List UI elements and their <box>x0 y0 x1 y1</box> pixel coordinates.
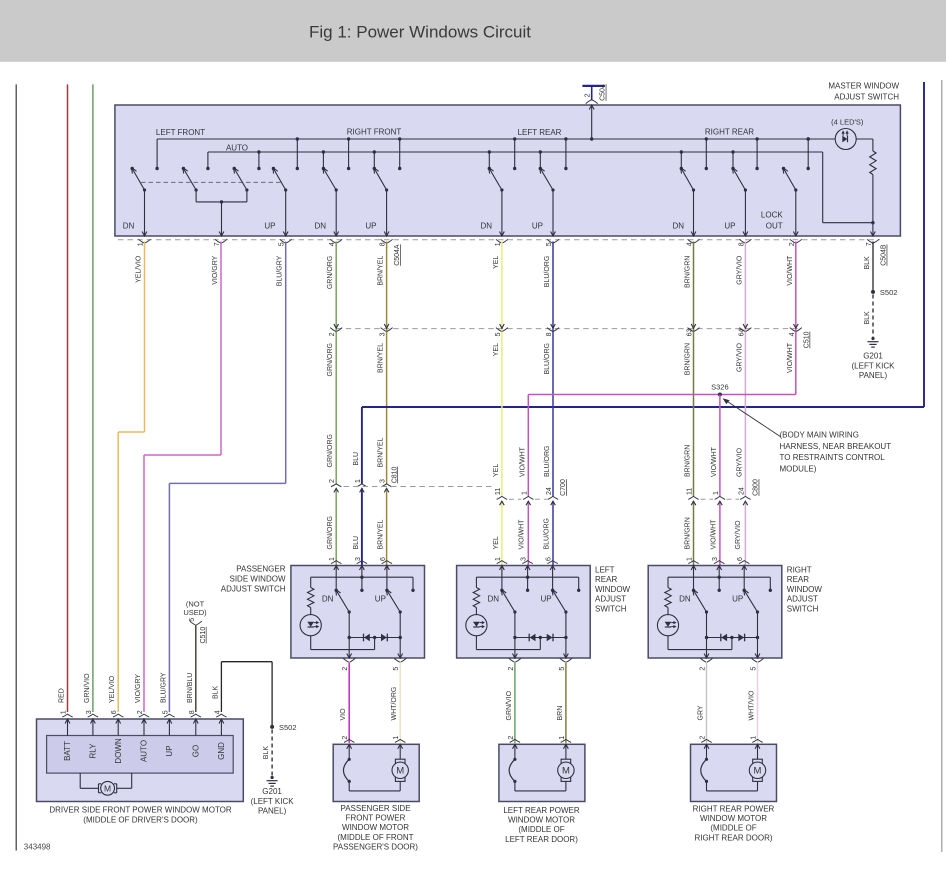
svg-text:BRN/GRN: BRN/GRN <box>685 445 692 477</box>
svg-text:6: 6 <box>737 557 744 561</box>
left rear DN blade <box>501 589 516 613</box>
left rear internal top rail <box>476 577 580 592</box>
driver auto blade B <box>234 168 249 192</box>
svg-text:BRN/YEL: BRN/YEL <box>378 343 385 373</box>
svg-text:3: 3 <box>521 557 528 561</box>
right rear UP blade <box>744 589 760 613</box>
svg-text:2: 2 <box>585 93 592 97</box>
svg-text:2: 2 <box>789 242 796 246</box>
svg-text:1: 1 <box>559 736 566 740</box>
svg-text:BLU/ORG: BLU/ORG <box>544 445 551 477</box>
switch output wire x=336.2 <box>334 190 339 236</box>
caption LEFT REAR POWER WINDOW MOTOR <box>503 806 580 844</box>
connector row C810 cups <box>331 484 341 493</box>
driver auto blade A <box>183 168 198 192</box>
svg-text:UP: UP <box>365 222 376 231</box>
wire BRN left rear pin5 to motor <box>565 663 567 743</box>
passenger pin2 output <box>343 638 355 663</box>
right rear pin3 entry <box>714 561 724 592</box>
svg-text:ADJUST: ADJUST <box>787 595 818 604</box>
svg-text:DN: DN <box>679 594 691 603</box>
caption DRIVER SIDE FRONT POWER WINDOW MOTOR <box>49 806 232 825</box>
svg-text:BLU: BLU <box>353 452 360 466</box>
wire VIO/WHT master pin2 with S326 splice run <box>528 242 796 395</box>
driver pin7 output wire <box>219 202 224 236</box>
svg-text:ADJUST: ADJUST <box>595 595 626 604</box>
left rear pin3 entry <box>522 561 532 592</box>
svg-text:S502: S502 <box>279 723 297 732</box>
right rear pin1 entry <box>688 561 698 592</box>
svg-text:BLU: BLU <box>353 536 360 550</box>
passenger side front circuit breaker arc <box>343 759 349 781</box>
wire VIO/WHT left rear from S326 run <box>527 395 529 566</box>
svg-text:VIO/WHT: VIO/WHT <box>711 446 718 477</box>
switch output wire x=795.8 <box>793 190 798 236</box>
left rear motor pin2 entry <box>510 739 520 761</box>
svg-text:GRN/ORG: GRN/ORG <box>327 434 334 467</box>
left frame line <box>15 84 17 850</box>
svg-text:5: 5 <box>559 667 566 671</box>
passenger side front motor M symbol <box>392 759 408 781</box>
right rear window adjust switch box <box>648 566 782 659</box>
svg-text:63: 63 <box>687 329 694 337</box>
svg-text:MASTER WINDOW: MASTER WINDOW <box>828 82 899 91</box>
left rear LED <box>466 615 487 636</box>
svg-text:11: 11 <box>687 488 694 495</box>
svg-text:RED: RED <box>59 688 66 703</box>
passenger internal top rail <box>311 577 415 592</box>
breaker bottom junction <box>513 780 566 791</box>
svg-text:G201: G201 <box>262 787 282 796</box>
wire VIO passenger pin2 to motor <box>348 663 350 743</box>
passenger side front power window motor box <box>333 744 419 801</box>
right rear LED to bottom rail <box>668 636 732 650</box>
passenger diode rail <box>348 612 402 639</box>
wire BRN/GRN below C800 <box>693 501 695 565</box>
C800 pin 1 cups x=719.9 <box>715 496 725 505</box>
wire BLK driver pin4 up-over to S502 <box>221 662 272 725</box>
C510 pin 64 cup x=745.4 <box>739 324 751 331</box>
dashed link C810-C700 row <box>344 486 495 488</box>
svg-text:1: 1 <box>329 557 336 561</box>
wire GRN/ORG master pin4 to C810 <box>335 242 337 484</box>
rail 2 (AUTO rail) <box>208 151 823 153</box>
left rear pin2 output <box>509 638 521 663</box>
splice S502 (right) <box>871 290 875 294</box>
svg-text:1: 1 <box>61 710 68 714</box>
svg-text:3: 3 <box>712 557 719 561</box>
svg-text:VIO/WHT: VIO/WHT <box>787 342 794 373</box>
wire BLU/GRY from master pin5 <box>169 242 285 713</box>
svg-text:3: 3 <box>355 557 362 561</box>
svg-text:BLU/GRY: BLU/GRY <box>160 672 167 703</box>
svg-text:SWITCH: SWITCH <box>787 604 819 613</box>
switch output wire x=285.7 <box>283 190 288 236</box>
switch output wire x=693.5 <box>691 190 696 236</box>
wire YEL/VIO from master pin1 <box>118 242 144 713</box>
svg-text:(BODY MAIN WIRING: (BODY MAIN WIRING <box>780 431 859 440</box>
svg-text:8: 8 <box>738 242 745 246</box>
label RIGHT REAR WINDOW ADJUST SWITCH <box>787 566 823 614</box>
svg-text:SIDE WINDOW: SIDE WINDOW <box>230 575 286 584</box>
label G201 (left) <box>251 787 295 815</box>
driver motor pin 6 DOWN <box>113 714 123 735</box>
svg-text:VIO/GRY: VIO/GRY <box>212 255 219 284</box>
passenger side front motor pin1 entry <box>395 739 405 759</box>
svg-text:6: 6 <box>111 710 118 714</box>
wire YEL below C700 <box>501 501 503 565</box>
svg-text:C700: C700 <box>560 479 567 496</box>
wire BRN/YEL master pin8 to C810 <box>386 242 388 484</box>
svg-text:RIGHT REAR DOOR): RIGHT REAR DOOR) <box>694 833 772 842</box>
C510 pin 3 cup x=386.6 <box>381 324 393 331</box>
passenger pin5 output <box>394 638 406 663</box>
wire BLU/ORG below C700 <box>552 501 554 565</box>
svg-text:BLK: BLK <box>212 685 219 699</box>
svg-text:6: 6 <box>546 557 553 561</box>
wire GRN/VIO relay feed <box>92 84 94 712</box>
svg-text:4: 4 <box>687 242 694 246</box>
svg-text:M: M <box>104 783 111 793</box>
svg-text:WHT/ORG: WHT/ORG <box>391 687 398 721</box>
svg-text:WINDOW MOTOR: WINDOW MOTOR <box>700 814 767 823</box>
svg-text:M: M <box>754 766 762 777</box>
switch output wire x=553.0 <box>551 190 556 236</box>
svg-text:1: 1 <box>751 736 758 740</box>
svg-text:USED): USED) <box>183 608 207 617</box>
svg-text:YEL: YEL <box>493 464 500 477</box>
svg-text:VIO/GRY: VIO/GRY <box>135 674 142 703</box>
right front UP blade <box>374 168 389 192</box>
label PASSENGER SIDE WINDOW ADJUST SWITCH <box>221 565 286 594</box>
open contact x=183.4 <box>182 167 185 170</box>
C504A/B pin 5 cup x=285.7 <box>280 239 292 243</box>
splice S502 (left) <box>270 725 274 729</box>
C510 pin 63 cup x=693.5 <box>688 324 700 331</box>
svg-text:3: 3 <box>86 710 93 714</box>
dashed segments C700 row <box>509 498 522 500</box>
svg-text:(MIDDLE OF: (MIDDLE OF <box>710 824 756 833</box>
open contact x=132.2 <box>131 167 134 170</box>
svg-text:RLY: RLY <box>89 743 98 759</box>
svg-text:2: 2 <box>137 710 144 714</box>
passenger diode right <box>381 634 387 642</box>
svg-text:5: 5 <box>393 667 400 671</box>
passenger resistor <box>308 577 314 614</box>
svg-text:2: 2 <box>700 667 707 671</box>
svg-text:PASSENGER SIDE: PASSENGER SIDE <box>340 804 410 813</box>
svg-text:WINDOW MOTOR: WINDOW MOTOR <box>342 823 409 832</box>
svg-text:2: 2 <box>508 667 515 671</box>
svg-text:BRN/GRN: BRN/GRN <box>685 256 692 288</box>
svg-text:(MIDDLE OF FRONT: (MIDDLE OF FRONT <box>338 833 414 842</box>
wire GRN/VIO left rear pin2 to motor <box>514 663 516 743</box>
wire GRN/ORG C810 to passenger switch <box>335 488 337 565</box>
svg-text:SWITCH: SWITCH <box>595 604 627 613</box>
wire BLU loop (navy): right riser, cross run, drop to passenger pin3 <box>362 82 924 566</box>
left rear diode rail <box>513 612 567 639</box>
C800 pin 24 cups x=745.4 <box>740 496 750 505</box>
svg-text:BRN/YEL: BRN/YEL <box>378 519 385 549</box>
svg-text:C504B: C504B <box>881 244 888 266</box>
svg-text:2: 2 <box>700 736 707 740</box>
C504A/B pin 4 cup x=693.5 <box>688 239 700 243</box>
svg-text:BRN/BLU: BRN/BLU <box>187 673 194 703</box>
svg-text:Fig 1: Power Windows Circuit: Fig 1: Power Windows Circuit <box>309 23 531 42</box>
header bar <box>0 0 946 62</box>
svg-text:1: 1 <box>713 491 720 495</box>
C504A/B pin 4 cup x=336.2 <box>330 239 342 243</box>
svg-text:24: 24 <box>738 487 745 495</box>
svg-text:RIGHT REAR POWER: RIGHT REAR POWER <box>693 804 775 813</box>
svg-text:GRY/VIO: GRY/VIO <box>736 447 743 477</box>
right front DN blade <box>323 168 338 192</box>
svg-text:UP: UP <box>541 594 552 603</box>
left rear pin5 output <box>560 638 572 663</box>
rail 2 right elbow to resistor bottom <box>823 152 873 223</box>
svg-text:DRIVER SIDE FRONT POWER WINDOW: DRIVER SIDE FRONT POWER WINDOW MOTOR <box>49 806 232 815</box>
driver auto U-link <box>196 190 247 204</box>
svg-text:C510: C510 <box>804 331 811 348</box>
svg-text:GRY: GRY <box>698 705 705 720</box>
svg-text:UP: UP <box>732 594 743 603</box>
svg-text:DOWN: DOWN <box>114 738 123 764</box>
rail2 stub contact x=374.3 <box>373 150 376 170</box>
right rear DN blade <box>681 168 695 192</box>
rail2 stub contact x=540.3 <box>539 150 542 170</box>
left rear window adjust switch box <box>457 566 591 659</box>
right rear motor M symbol <box>749 759 765 781</box>
passenger pin3 entry <box>357 561 367 592</box>
svg-text:BLK: BLK <box>864 311 871 325</box>
svg-text:C510: C510 <box>200 627 207 644</box>
svg-text:TO RESTRAINTS CONTROL: TO RESTRAINTS CONTROL <box>780 453 886 462</box>
svg-text:2: 2 <box>508 736 515 740</box>
driver side front power window motor box <box>37 719 244 802</box>
svg-text:1: 1 <box>495 242 502 246</box>
svg-text:7: 7 <box>214 242 221 246</box>
svg-text:BRN/GRN: BRN/GRN <box>685 517 692 549</box>
LED (4 LED'S) in master switch <box>807 129 857 150</box>
resistor (master switch) <box>856 139 876 224</box>
svg-text:(MIDDLE OF DRIVER'S DOOR): (MIDDLE OF DRIVER'S DOOR) <box>83 815 198 824</box>
left rear power window motor box <box>499 744 585 801</box>
wire GRY right rear pin2 to motor <box>706 663 708 743</box>
svg-text:GRN/ORG: GRN/ORG <box>327 343 334 376</box>
right frame line <box>941 80 943 852</box>
label G201 (right) <box>852 352 896 381</box>
right rear diode left <box>721 634 727 642</box>
svg-text:PASSENGER: PASSENGER <box>236 565 285 574</box>
C510 pin 5 cup x=501.9 <box>496 324 508 331</box>
switch output wire x=501.9 <box>500 190 505 236</box>
passenger LED to bottom rail <box>311 636 375 650</box>
svg-text:REAR: REAR <box>595 575 617 584</box>
wire WHT/VIO right rear pin5 to motor <box>757 663 759 743</box>
svg-text:WHT/VIO: WHT/VIO <box>749 690 756 720</box>
svg-text:FRONT POWER: FRONT POWER <box>346 814 406 823</box>
C800 pin 11 cups x=693.5 <box>688 496 698 505</box>
breaker bottom junction <box>705 780 758 791</box>
driver motor pin 2 AUTO <box>139 714 149 735</box>
driver motor pin 1 BATT <box>62 714 72 735</box>
passenger UP blade <box>386 589 402 613</box>
svg-text:11: 11 <box>495 488 502 495</box>
wire BLU/ORG master LR pin5 <box>552 242 554 497</box>
svg-text:RIGHT FRONT: RIGHT FRONT <box>347 128 402 137</box>
svg-text:5: 5 <box>495 332 502 336</box>
svg-text:RIGHT: RIGHT <box>787 566 812 575</box>
passenger DN blade <box>336 589 351 613</box>
svg-text:PASSENGER'S DOOR): PASSENGER'S DOOR) <box>333 843 418 852</box>
wire BLK dashed S502 to G201 (left) <box>271 730 273 777</box>
right rear pin5 output <box>752 638 764 663</box>
label MASTER WINDOW ADJUST SWITCH <box>828 82 899 102</box>
splice S326 <box>718 393 722 397</box>
C510 pin 4 cup x=795.8 <box>790 324 802 331</box>
right rear power window motor box <box>691 744 777 801</box>
svg-text:LEFT REAR DOOR): LEFT REAR DOOR) <box>505 835 578 844</box>
left rear diode left <box>529 634 535 642</box>
rail 1 (window select top rail) <box>157 138 835 140</box>
svg-text:LEFT REAR: LEFT REAR <box>518 128 562 137</box>
driver UP blade <box>273 168 288 192</box>
pin 7 BLK output wire <box>871 223 876 236</box>
wire BLK dashed S502 to G201 <box>872 295 874 338</box>
svg-text:(MIDDLE OF: (MIDDLE OF <box>518 825 564 834</box>
driver motor pin 5 UP <box>164 714 174 735</box>
svg-text:BRN/YEL: BRN/YEL <box>378 256 385 286</box>
left rear LED to bottom rail <box>476 636 540 650</box>
driver motor M symbol <box>80 773 132 795</box>
svg-text:6: 6 <box>380 557 387 561</box>
svg-text:RIGHT REAR: RIGHT REAR <box>705 128 754 137</box>
svg-text:AUTO: AUTO <box>226 143 248 152</box>
svg-text:S326: S326 <box>711 383 729 392</box>
connector C504 stub (navy) with end bar <box>582 86 605 104</box>
switch output wire x=745.4 <box>743 190 748 236</box>
svg-text:3: 3 <box>380 479 387 483</box>
wire RED battery feed <box>67 84 69 712</box>
svg-text:C800: C800 <box>753 479 760 496</box>
svg-text:2: 2 <box>342 667 349 671</box>
svg-text:OUT: OUT <box>766 222 783 231</box>
left rear UP blade <box>540 168 555 192</box>
svg-text:BLU/ORG: BLU/ORG <box>544 343 551 375</box>
driver motor pin 4 GND <box>216 714 226 735</box>
C504A/B pin 7 cup x=221.0 <box>215 239 227 243</box>
svg-text:WINDOW: WINDOW <box>787 585 823 594</box>
right rear motor pin1 entry <box>752 739 762 759</box>
svg-text:7: 7 <box>866 242 873 246</box>
svg-text:BLU/ORG: BLU/ORG <box>544 256 551 288</box>
svg-text:GRY/VIO: GRY/VIO <box>736 342 743 372</box>
svg-text:WINDOW MOTOR: WINDOW MOTOR <box>508 816 575 825</box>
svg-text:8: 8 <box>380 242 387 246</box>
svg-text:PANEL): PANEL) <box>859 371 888 380</box>
rail1 stub contact x=565.9 <box>564 137 567 170</box>
svg-text:BRN: BRN <box>557 706 564 721</box>
svg-text:YEL: YEL <box>493 343 500 356</box>
svg-text:1: 1 <box>687 557 694 561</box>
wire VIO/GRY from master pin7 <box>144 242 221 713</box>
rail1 stub contact x=348.6 <box>347 137 350 170</box>
svg-text:DN: DN <box>123 222 135 231</box>
svg-text:S502: S502 <box>880 288 898 297</box>
annotation text BODY MAIN WIRING HARNESS <box>780 431 892 474</box>
rail1 stub contact x=757.1 <box>755 137 758 170</box>
svg-text:1: 1 <box>495 557 502 561</box>
rail1 stub contact x=808.2 <box>807 137 810 170</box>
connector row C510 dashed line <box>336 328 800 330</box>
svg-text:C504A: C504A <box>394 244 401 266</box>
left rear diode right <box>547 634 553 642</box>
gang link (dashed) driver switch <box>141 181 283 183</box>
rail2 stub contact x=681.3 <box>680 150 683 170</box>
passenger diode left <box>364 634 370 642</box>
breaker bottom junction <box>348 780 401 791</box>
svg-text:REAR: REAR <box>787 575 809 584</box>
svg-text:ADJUST SWITCH: ADJUST SWITCH <box>834 93 899 102</box>
svg-text:UP: UP <box>724 222 735 231</box>
wire BLK from C504B pin7 to S502 <box>872 242 874 290</box>
svg-text:24: 24 <box>546 487 553 495</box>
left rear resistor <box>473 577 479 614</box>
left rear UP blade <box>552 589 568 613</box>
svg-text:(LEFT KICK: (LEFT KICK <box>852 361 896 370</box>
C510 pin 8 cup x=553.0 <box>547 324 559 331</box>
C504A/B pin 8 cup x=745.4 <box>739 239 751 243</box>
rail2 stub contact x=733.0 <box>731 150 734 170</box>
svg-text:VIO/WHT: VIO/WHT <box>710 519 717 550</box>
svg-text:GND: GND <box>217 742 226 760</box>
svg-text:GRN/VIO: GRN/VIO <box>84 673 91 703</box>
svg-text:VIO/WHT: VIO/WHT <box>787 255 794 286</box>
svg-text:1: 1 <box>355 479 362 483</box>
svg-text:BLK: BLK <box>864 256 871 270</box>
svg-text:C810: C810 <box>391 466 398 483</box>
svg-text:DN: DN <box>314 222 326 231</box>
svg-text:C504: C504 <box>600 84 607 101</box>
right rear LED <box>657 615 678 636</box>
svg-text:8: 8 <box>189 710 196 714</box>
C504A/B pin 1 cup x=144.5 <box>139 239 151 243</box>
svg-text:BATT: BATT <box>63 741 72 761</box>
svg-text:2: 2 <box>329 479 336 483</box>
svg-text:BRN/GRN: BRN/GRN <box>685 343 692 375</box>
svg-text:LEFT FRONT: LEFT FRONT <box>156 128 205 137</box>
passenger LED <box>300 615 321 636</box>
right rear diode rail <box>705 612 759 639</box>
svg-text:MODULE): MODULE) <box>780 464 817 473</box>
svg-text:DN: DN <box>480 222 492 231</box>
right rear motor pin2 entry <box>701 739 711 761</box>
driver DN blade <box>132 168 146 192</box>
connector row C504A/C504B dashed line <box>118 239 880 241</box>
svg-text:5: 5 <box>162 710 169 714</box>
svg-text:YEL/VIO: YEL/VIO <box>109 675 116 703</box>
open contact x=783.5 <box>782 167 785 170</box>
C504A/B pin 2 cup x=795.8 <box>790 239 802 243</box>
svg-text:5: 5 <box>279 242 286 246</box>
svg-text:DN: DN <box>322 594 334 603</box>
svg-text:WINDOW: WINDOW <box>595 585 631 594</box>
svg-text:HARNESS, NEAR BREAKOUT: HARNESS, NEAR BREAKOUT <box>780 442 892 451</box>
left rear motor pin1 entry <box>561 739 571 759</box>
caption PASSENGER SIDE FRONT POWER WINDOW MOTOR <box>333 804 418 852</box>
svg-text:GRY/VIO: GRY/VIO <box>736 255 743 285</box>
svg-text:GRY/VIO: GRY/VIO <box>735 520 742 550</box>
